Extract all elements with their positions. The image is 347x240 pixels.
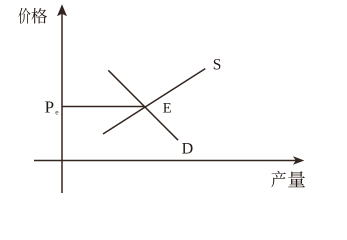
svg-text:S: S (213, 56, 222, 73)
svg-text:D: D (182, 140, 194, 157)
svg-text:E: E (163, 101, 172, 117)
svg-text:P: P (45, 98, 54, 117)
